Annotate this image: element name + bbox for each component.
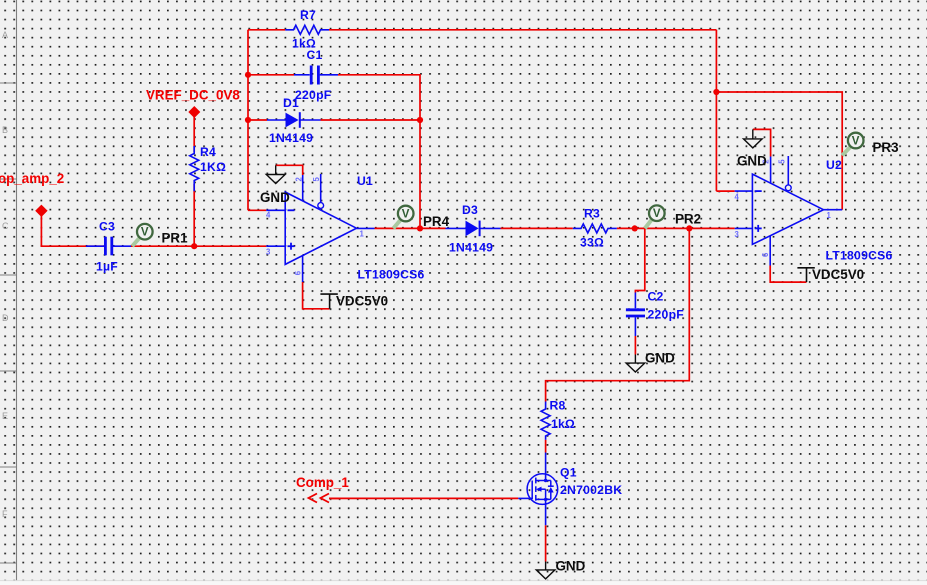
svg-text:VDC5V0: VDC5V0 xyxy=(336,294,388,309)
svg-text:LT1809CS6: LT1809CS6 xyxy=(358,268,425,282)
wire U2 pin2 supply jog xyxy=(753,129,771,156)
resistor R8 xyxy=(541,402,550,440)
svg-text:V: V xyxy=(141,227,149,239)
svg-text:4: 4 xyxy=(266,211,271,220)
U2 minus sign xyxy=(755,190,762,192)
svg-text:1KΩ: 1KΩ xyxy=(200,160,226,174)
svg-text:1: 1 xyxy=(827,211,832,220)
U2 pin 3 lead xyxy=(735,227,753,229)
svg-text:R4: R4 xyxy=(200,145,216,159)
junction node at U1 output xyxy=(417,225,423,231)
svg-text:1kΩ: 1kΩ xyxy=(551,417,575,431)
svg-text:6: 6 xyxy=(293,270,302,275)
svg-text:PR4: PR4 xyxy=(423,214,450,229)
junction node at D1 row left xyxy=(245,117,251,123)
svg-text:PR2: PR2 xyxy=(675,212,701,227)
wire U2 inverting input xyxy=(716,190,734,192)
junction node PR2 xyxy=(686,225,692,231)
wire U2 pin6 to VDC xyxy=(770,266,806,283)
port arrows Comp_1 xyxy=(309,494,341,503)
capacitor C1 xyxy=(294,66,338,85)
svg-text:VDC5V0: VDC5V0 xyxy=(812,267,864,282)
bottom window strip xyxy=(0,581,927,585)
ground symbol at U2 pin 2 xyxy=(744,129,763,148)
wire C3 to U1 plus xyxy=(131,245,266,247)
svg-text:U1: U1 xyxy=(357,174,373,188)
Q1 channel dashes xyxy=(535,478,537,484)
svg-text:U2: U2 xyxy=(826,158,842,172)
Q1 body diode xyxy=(550,481,552,487)
wire VREF to R4 xyxy=(193,116,195,152)
probe PR4 xyxy=(393,206,413,229)
port diamond op_amp_2 xyxy=(35,205,47,217)
wire D3 to R3 xyxy=(501,227,573,229)
U2 output lead pin 1 xyxy=(824,209,843,211)
probe PR1 xyxy=(132,224,152,246)
wire input diamond to C3 xyxy=(41,215,104,246)
power symbol VDC5V0 U1 xyxy=(320,294,337,309)
U2 pin 4 lead xyxy=(735,190,753,192)
wire PR2 branch to R8 xyxy=(546,228,690,401)
U1 pin 2 lead xyxy=(302,175,304,201)
svg-text:6: 6 xyxy=(761,252,770,257)
svg-text:33Ω: 33Ω xyxy=(580,236,604,250)
capacitor C2 xyxy=(626,293,645,337)
svg-text:GND: GND xyxy=(260,190,290,205)
sheet border ruler line xyxy=(0,0,17,585)
power symbol VDC5V0 U2 xyxy=(797,268,814,282)
ground symbol at U1 pin 2 xyxy=(266,165,285,183)
Q1 body connection with arrow xyxy=(541,488,546,490)
wire C1 row left xyxy=(248,74,294,76)
wire C2 to ground xyxy=(634,336,636,355)
svg-text:1: 1 xyxy=(360,230,365,239)
svg-text:4: 4 xyxy=(735,193,740,202)
Q1 gate lead xyxy=(518,497,532,499)
svg-text:1N4149: 1N4149 xyxy=(269,131,313,145)
diode D3 xyxy=(446,221,501,237)
svg-text:PR1: PR1 xyxy=(162,231,189,246)
Q1 gate bar xyxy=(531,481,533,500)
svg-text:3: 3 xyxy=(735,230,740,239)
resistor R3 xyxy=(573,224,617,233)
resistor R4 xyxy=(190,146,199,191)
wire R3 to U2 noninverting xyxy=(617,227,735,229)
svg-text:op_amp_2: op_amp_2 xyxy=(0,171,64,186)
wire U1 pin6 to VDC xyxy=(303,282,330,309)
Q1 drain connection xyxy=(536,480,551,482)
svg-text:2: 2 xyxy=(295,177,304,182)
transistor Q1 2N7002BK xyxy=(518,453,557,526)
resistor R7 xyxy=(285,25,329,34)
U2 plus sign xyxy=(755,225,762,232)
Q1 terminal dots xyxy=(544,479,547,482)
svg-text:220pF: 220pF xyxy=(295,88,331,102)
probe PR2 xyxy=(645,205,665,228)
wire U2 feedback top xyxy=(715,30,717,191)
svg-text:C1: C1 xyxy=(307,48,323,62)
svg-text:D: D xyxy=(2,313,9,323)
svg-text:V: V xyxy=(402,208,410,220)
svg-text:C3: C3 xyxy=(99,220,115,234)
U2 pin 2 lead xyxy=(770,157,772,184)
op-amp U1 xyxy=(266,174,375,282)
svg-text:Comp_1: Comp_1 xyxy=(296,475,349,490)
U1 minus sign xyxy=(288,209,295,211)
ground symbol at C2 xyxy=(626,355,645,373)
wire U1 inverting input xyxy=(248,209,266,211)
svg-text:R7: R7 xyxy=(300,8,316,22)
wire R7 row to U2 column xyxy=(329,29,716,31)
svg-text:LT1809CS6: LT1809CS6 xyxy=(826,249,893,263)
junction node U2 feedback xyxy=(713,89,719,95)
wire U2 output feedback loop xyxy=(716,92,842,210)
svg-text:F: F xyxy=(2,509,8,519)
svg-text:B: B xyxy=(2,125,8,135)
junction node at C2 tap xyxy=(632,225,638,231)
svg-text:E: E xyxy=(2,411,8,421)
svg-text:C2: C2 xyxy=(648,290,664,304)
svg-text:1µF: 1µF xyxy=(96,260,118,274)
capacitor C3 xyxy=(86,237,131,256)
wire R8 to Q1 drain xyxy=(545,440,547,453)
svg-text:5: 5 xyxy=(312,177,321,182)
wire Q1 source to ground xyxy=(545,525,547,561)
junction node at C1 row left xyxy=(245,72,251,78)
svg-text:D1: D1 xyxy=(283,96,299,110)
svg-text:GND: GND xyxy=(556,559,586,574)
Q1 source connection xyxy=(536,498,551,500)
U1 pin 4 lead xyxy=(266,209,285,211)
svg-text:D3: D3 xyxy=(462,203,478,217)
U1 pin 3 lead xyxy=(266,245,285,247)
svg-text:A: A xyxy=(2,30,8,40)
junction node at D1 row right xyxy=(417,117,423,123)
wire R7 row left xyxy=(248,29,285,31)
U2 pin 5 lead with bubble xyxy=(787,156,789,185)
wire Comp_1 to Q1 gate xyxy=(330,497,518,499)
svg-text:GND: GND xyxy=(737,154,767,169)
svg-text:V: V xyxy=(653,208,661,220)
U2 pin 6 lead xyxy=(769,236,771,266)
wire U1 output row xyxy=(375,227,446,229)
wire C1-D1 loop column xyxy=(419,120,421,228)
svg-text:5: 5 xyxy=(778,159,787,164)
port diamond VREF_DC_0V8 xyxy=(188,106,200,118)
junction dots xyxy=(191,72,719,250)
diode D1 xyxy=(267,112,321,128)
op-amp U2 xyxy=(735,156,843,266)
Q1 source lead xyxy=(545,499,547,525)
svg-text:V: V xyxy=(852,135,860,147)
wire left feedback column xyxy=(247,30,249,211)
svg-text:C: C xyxy=(2,221,9,231)
svg-text:2N7002BK: 2N7002BK xyxy=(560,483,622,497)
wire C1 row right xyxy=(338,75,420,120)
wire D1 row left xyxy=(248,119,267,121)
svg-text:3: 3 xyxy=(266,248,271,257)
svg-text:GND: GND xyxy=(645,351,675,366)
U1 plus sign xyxy=(288,243,295,250)
U1 pin 6 lead xyxy=(302,256,304,283)
zone letters xyxy=(2,30,9,519)
wire R4 to input row xyxy=(193,184,195,246)
wire C2 branch drop xyxy=(635,228,644,292)
junction node PR1/R4 xyxy=(191,243,197,249)
svg-text:VREF_DC_0V8: VREF_DC_0V8 xyxy=(146,88,240,103)
probe PR3 xyxy=(842,133,863,156)
U1 pin 5 lead with bubble xyxy=(320,174,322,203)
wire U1 pin2 supply jog xyxy=(276,165,303,175)
ground symbol at Q1 source xyxy=(536,562,555,579)
svg-text:R8: R8 xyxy=(550,399,566,413)
U1 output lead pin 1 xyxy=(357,227,375,229)
svg-text:220pF: 220pF xyxy=(648,308,684,322)
svg-text:R3: R3 xyxy=(584,207,600,221)
Q1 drain lead xyxy=(545,453,547,481)
svg-text:PR3: PR3 xyxy=(873,140,899,155)
svg-text:Q1: Q1 xyxy=(560,466,577,480)
svg-text:1N4149: 1N4149 xyxy=(449,241,493,255)
wire D1 row right xyxy=(321,119,421,121)
